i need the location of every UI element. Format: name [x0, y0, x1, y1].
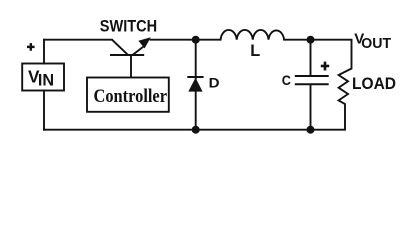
transistor switch Q1 — [110, 40, 146, 78]
svg-text:D: D — [209, 75, 220, 90]
diode D triangle — [188, 78, 202, 92]
wire bottom rail — [44, 129, 345, 131]
emitter diagonal with arrow to right wire — [133, 45, 146, 55]
load resistor zigzag — [339, 40, 352, 130]
svg-text:SWITCH: SWITCH — [100, 16, 157, 35]
wire capacitor branch top — [310, 40, 312, 76]
svg-text:IN: IN — [38, 71, 54, 90]
node junction dot top right — [307, 36, 315, 44]
wire capacitor branch bottom — [310, 84, 312, 130]
inductor L coil — [221, 30, 285, 40]
base bar — [110, 54, 144, 56]
svg-text:OUT: OUT — [361, 36, 391, 52]
label V_IN — [28, 66, 54, 89]
svg-text:Controller: Controller — [94, 86, 168, 107]
capacitor C plates — [295, 76, 329, 84]
source V_IN box — [22, 64, 64, 91]
svg-text:C: C — [282, 73, 292, 88]
node junction dot bottom left — [192, 126, 200, 134]
wire top rail right segment — [151, 39, 352, 41]
label V_OUT — [354, 30, 391, 52]
wire top rail left segment — [44, 39, 112, 41]
polarity plus of Vin — [27, 43, 35, 51]
diode D cathode bar — [187, 76, 203, 78]
wire left branch Vin top — [43, 40, 45, 64]
switch arrowhead — [138, 37, 150, 48]
wire left branch Vin bottom — [43, 91, 45, 130]
svg-text:L: L — [250, 41, 260, 60]
polarity plus of capacitor — [321, 62, 329, 71]
wire diode branch — [195, 40, 197, 130]
node junction dot top left — [192, 36, 200, 44]
controller box U1 — [87, 78, 169, 112]
base stub down to controller — [130, 55, 132, 78]
node junction dot bottom right — [307, 126, 315, 134]
collector diagonal from left wire — [112, 40, 128, 55]
svg-text:LOAD: LOAD — [352, 74, 396, 93]
